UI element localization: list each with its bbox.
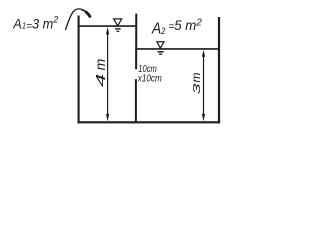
svg-text:3: 3 (191, 83, 202, 94)
orifice gap, dividing wall lower segment (135, 79, 137, 122)
tank 1 left wall (78, 16, 80, 124)
dimension 3 m top arrowhead (202, 50, 205, 57)
curved leader from label A1 to tank 1 (65, 9, 81, 30)
tank 2 water surface line (136, 48, 219, 50)
label orifice 10cm x 10cm (137, 64, 162, 84)
dimension 3 m bottom arrowhead (202, 114, 205, 122)
dividing wall upper segment (135, 14, 137, 70)
svg-text:4: 4 (95, 74, 109, 87)
leader arrow hook (86, 12, 90, 16)
dimension 4 m top arrowhead (106, 27, 109, 35)
label 3 m (rotated) (189, 73, 203, 95)
leader elbow (82, 9, 87, 12)
tank 2 right wall (218, 17, 220, 123)
svg-text:=5 m2: =5 m2 (168, 16, 202, 33)
svg-text:m: m (189, 73, 203, 83)
tank floor baseline (78, 121, 221, 123)
water surface symbol tank 2 (157, 42, 164, 54)
svg-text:A1=3 m2: A1=3 m2 (12, 14, 59, 32)
svg-text:m: m (92, 58, 108, 70)
svg-text:x10cm: x10cm (137, 72, 162, 84)
dimension line 4 m shaft (107, 31, 109, 118)
svg-text:A2: A2 (151, 21, 165, 38)
tank 1 water surface line (79, 25, 136, 27)
dimension 4 m bottom arrowhead (106, 114, 109, 122)
label 4 m (rotated) (92, 58, 108, 87)
water surface symbol tank 1 (114, 19, 122, 32)
dimension line 3 m shaft (203, 53, 205, 118)
